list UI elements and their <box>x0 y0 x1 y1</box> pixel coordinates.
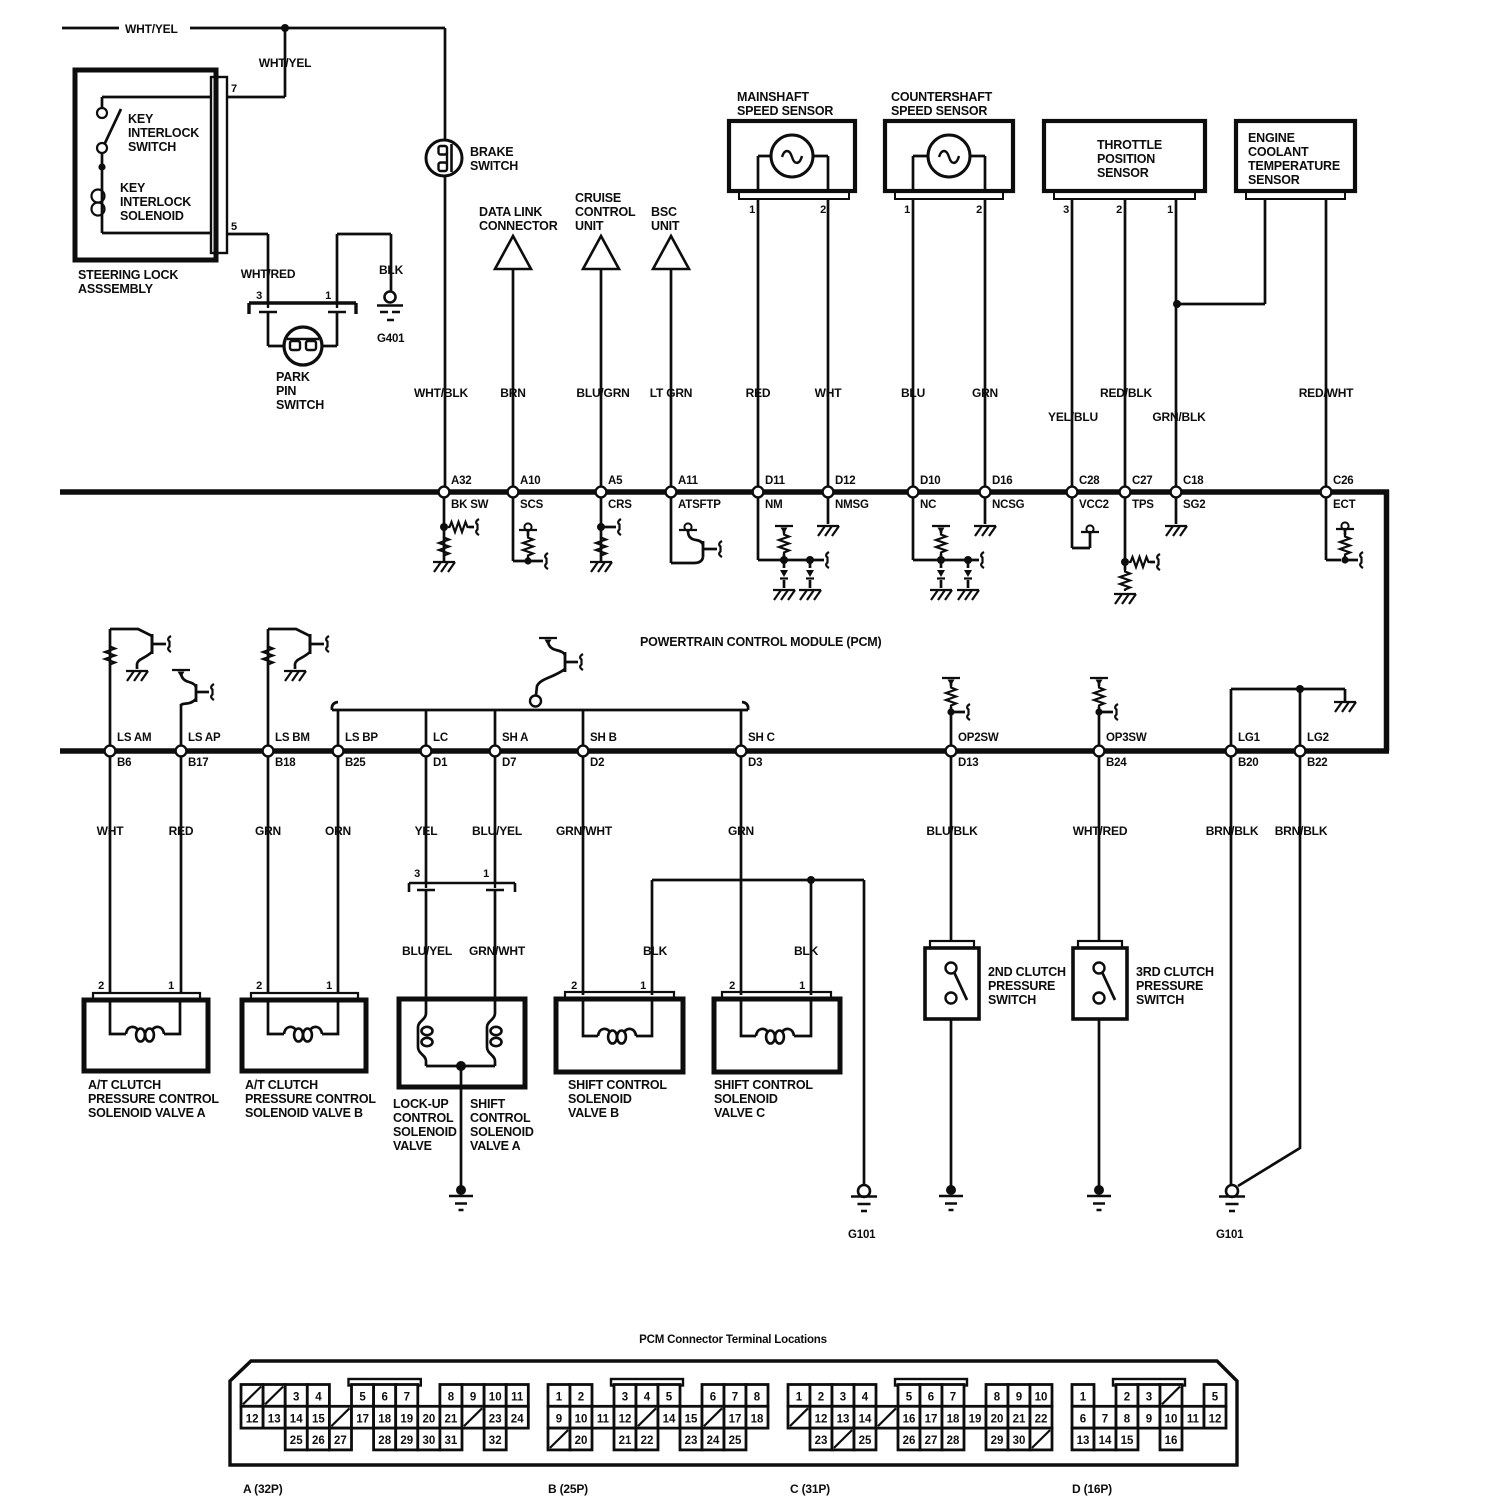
svg-text:B25: B25 <box>345 757 366 769</box>
svg-text:2: 2 <box>578 1392 584 1404</box>
svg-text:C (31P): C (31P) <box>790 1482 830 1496</box>
svg-text:SPEED SENSOR: SPEED SENSOR <box>891 104 987 118</box>
svg-text:15: 15 <box>1121 1435 1134 1447</box>
wire RED <box>746 199 771 489</box>
svg-text:28: 28 <box>378 1435 391 1447</box>
wire RED/BLK <box>1100 199 1152 489</box>
wire GRN/WHT to shift valve A <box>469 890 526 1000</box>
svg-text:7: 7 <box>231 83 237 95</box>
svg-text:A32: A32 <box>451 475 472 487</box>
svg-text:VALVE: VALVE <box>393 1139 432 1153</box>
wire YEL D1 <box>415 756 438 883</box>
node SH A D7 <box>490 732 529 769</box>
svg-text:G101: G101 <box>1216 1229 1244 1241</box>
node D11 NM <box>753 475 786 511</box>
svg-text:D1: D1 <box>433 757 448 769</box>
svg-text:WHT/RED: WHT/RED <box>241 267 296 281</box>
svg-text:7: 7 <box>950 1392 956 1404</box>
svg-text:PCM Connector Terminal Locatio: PCM Connector Terminal Locations <box>639 1334 827 1346</box>
ground G401 <box>377 292 405 346</box>
svg-text:1: 1 <box>904 204 910 216</box>
svg-text:D3: D3 <box>748 757 762 769</box>
svg-text:GRN/BLK: GRN/BLK <box>1152 410 1206 424</box>
svg-text:6: 6 <box>381 1392 387 1404</box>
svg-text:LS BP: LS BP <box>345 732 378 744</box>
NMSG internal ground <box>817 497 839 536</box>
svg-text:B20: B20 <box>1238 757 1259 769</box>
svg-text:SENSOR: SENSOR <box>1248 173 1300 187</box>
svg-text:PARK: PARK <box>276 370 310 384</box>
svg-text:18: 18 <box>947 1413 960 1425</box>
svg-text:C26: C26 <box>1333 475 1354 487</box>
svg-text:PRESSURE CONTROL: PRESSURE CONTROL <box>88 1092 219 1106</box>
svg-text:C27: C27 <box>1132 475 1153 487</box>
svg-text:KEY: KEY <box>128 112 154 126</box>
svg-text:14: 14 <box>663 1413 676 1425</box>
ground G101 left <box>848 1185 877 1241</box>
svg-text:21: 21 <box>1013 1413 1026 1425</box>
svg-text:BLU/GRN: BLU/GRN <box>576 386 629 400</box>
svg-text:SHIFT: SHIFT <box>470 1097 506 1111</box>
wire BRN/BLK B20 <box>1206 756 1259 1185</box>
node OP2SW D13 <box>946 732 999 769</box>
svg-text:SHIFT CONTROL: SHIFT CONTROL <box>568 1078 667 1092</box>
svg-text:LC: LC <box>433 732 448 744</box>
svg-text:D10: D10 <box>920 475 941 487</box>
wire WHT/RED pin5 to park pin switch <box>227 234 296 303</box>
svg-text:CONTROL: CONTROL <box>575 205 636 219</box>
svg-text:SOLENOID: SOLENOID <box>120 209 184 223</box>
svg-text:SH C: SH C <box>748 732 775 744</box>
svg-text:BK SW: BK SW <box>451 499 489 511</box>
wire RED/WHT <box>1299 199 1354 489</box>
svg-text:ORN: ORN <box>325 824 351 838</box>
wire RED B17 <box>169 756 194 993</box>
svg-text:3: 3 <box>256 290 262 302</box>
svg-text:24: 24 <box>707 1435 720 1447</box>
label WHT/YEL vertical branch <box>259 56 312 70</box>
svg-text:RED/BLK: RED/BLK <box>1100 386 1152 400</box>
svg-text:POSITION: POSITION <box>1097 152 1155 166</box>
svg-text:GRN: GRN <box>255 824 281 838</box>
svg-text:BRN/BLK: BRN/BLK <box>1275 824 1328 838</box>
BSC unit <box>651 205 689 269</box>
svg-text:5: 5 <box>906 1392 913 1404</box>
svg-text:8: 8 <box>1124 1413 1131 1425</box>
wire BLU/BLK D13 <box>926 756 978 941</box>
svg-text:4: 4 <box>862 1392 869 1404</box>
svg-text:30: 30 <box>423 1435 436 1447</box>
svg-text:13: 13 <box>1077 1435 1090 1447</box>
wire 3rd clutch switch to ground <box>1098 1019 1101 1186</box>
cruise control unit <box>575 191 636 269</box>
svg-text:LS AP: LS AP <box>188 732 221 744</box>
wire WHT/RED B24 <box>1073 756 1128 941</box>
NC internal clamp network <box>913 497 984 600</box>
wire BLU/YEL D7 <box>472 756 522 883</box>
wire BRN <box>500 269 525 489</box>
svg-text:SOLENOID VALVE A: SOLENOID VALVE A <box>88 1106 206 1120</box>
svg-text:29: 29 <box>400 1435 413 1447</box>
TPS internal divider <box>1114 497 1160 604</box>
LS AP internal driver transistor <box>172 670 214 746</box>
svg-text:6: 6 <box>928 1392 934 1404</box>
3rd clutch pressure switch connector <box>1078 941 1122 948</box>
svg-text:29: 29 <box>991 1435 1004 1447</box>
svg-text:8: 8 <box>448 1392 455 1404</box>
svg-text:24: 24 <box>511 1413 524 1425</box>
svg-text:COUNTERSHAFT: COUNTERSHAFT <box>891 90 993 104</box>
svg-text:1: 1 <box>796 1392 803 1404</box>
svg-text:2: 2 <box>1124 1392 1130 1404</box>
label PCM connector terminal locations <box>639 1334 827 1346</box>
mainshaft speed sensor <box>729 90 855 216</box>
svg-text:COOLANT: COOLANT <box>1248 145 1309 159</box>
svg-text:SPEED SENSOR: SPEED SENSOR <box>737 104 833 118</box>
svg-text:RED/WHT: RED/WHT <box>1299 386 1354 400</box>
svg-text:8: 8 <box>754 1392 761 1404</box>
svg-text:GRN: GRN <box>728 824 754 838</box>
svg-text:B6: B6 <box>117 757 131 769</box>
3rd clutch pressure switch <box>1073 948 1214 1019</box>
lock-up solenoid connector <box>409 868 515 892</box>
2nd clutch pressure switch <box>925 948 1066 1019</box>
svg-text:B24: B24 <box>1106 757 1127 769</box>
svg-text:TEMPERATURE: TEMPERATURE <box>1248 159 1340 173</box>
svg-text:16: 16 <box>1165 1435 1178 1447</box>
svg-text:SH B: SH B <box>590 732 617 744</box>
label connector D <box>1072 1482 1112 1496</box>
ground below 3rd clutch switch <box>1087 1185 1111 1210</box>
svg-text:SOLENOID: SOLENOID <box>393 1125 457 1139</box>
OP2SW internal pull-up <box>942 678 970 746</box>
node C28 VCC2 <box>1067 475 1109 511</box>
svg-text:LS BM: LS BM <box>275 732 310 744</box>
A/T clutch pressure control solenoid valve A connector <box>93 980 200 1000</box>
wire ORN B25 <box>325 756 351 993</box>
wire WHT/BLK brake switch to A32 <box>414 176 468 489</box>
svg-text:TPS: TPS <box>1132 499 1154 511</box>
svg-text:SCS: SCS <box>520 499 544 511</box>
ground G101 right <box>1216 1185 1245 1241</box>
svg-text:12: 12 <box>1209 1413 1222 1425</box>
svg-text:NCSG: NCSG <box>992 499 1025 511</box>
svg-text:OP2SW: OP2SW <box>958 732 999 744</box>
svg-text:15: 15 <box>312 1413 325 1425</box>
node OP3SW B24 <box>1094 732 1147 769</box>
svg-text:POWERTRAIN CONTROL MODULE (PCM: POWERTRAIN CONTROL MODULE (PCM) <box>640 635 882 649</box>
wire BLU <box>901 199 925 489</box>
node LC D1 <box>421 732 449 769</box>
svg-text:GRN: GRN <box>972 386 998 400</box>
svg-text:22: 22 <box>641 1435 654 1447</box>
svg-text:YEL: YEL <box>415 824 438 838</box>
svg-text:4: 4 <box>644 1392 651 1404</box>
wire lock-up valve to ground <box>460 1066 463 1186</box>
data link connector <box>479 205 558 269</box>
svg-text:14: 14 <box>1099 1435 1112 1447</box>
svg-text:1: 1 <box>749 204 755 216</box>
svg-text:BRN/BLK: BRN/BLK <box>1206 824 1259 838</box>
SCS internal pull-up <box>513 497 548 569</box>
wire BLU/GRN <box>576 269 629 489</box>
svg-text:7: 7 <box>404 1392 410 1404</box>
PCM bus sensor side <box>60 489 1389 495</box>
park pin switch <box>268 312 337 412</box>
svg-text:ENGINE: ENGINE <box>1248 131 1295 145</box>
connector B (25P) <box>548 1379 768 1450</box>
node A11 ATSFTP <box>666 475 722 511</box>
svg-text:PRESSURE CONTROL: PRESSURE CONTROL <box>245 1092 376 1106</box>
wire BLU/YEL to lock-up valve <box>402 890 452 1000</box>
VCC2 internal supply <box>1072 497 1099 548</box>
svg-text:SENSOR: SENSOR <box>1097 166 1149 180</box>
wire BLK shift valve C <box>794 876 819 995</box>
svg-text:14: 14 <box>859 1413 872 1425</box>
svg-text:3: 3 <box>622 1392 628 1404</box>
node D10 NC <box>908 475 941 511</box>
svg-text:GRN/WHT: GRN/WHT <box>469 944 526 958</box>
park pin switch connector <box>249 290 356 314</box>
wire BLK to G401 <box>337 234 404 303</box>
label powertrain control module <box>640 635 882 649</box>
svg-text:UNIT: UNIT <box>651 219 680 233</box>
svg-text:WHT/RED: WHT/RED <box>1073 824 1128 838</box>
svg-text:SOLENOID: SOLENOID <box>714 1092 778 1106</box>
svg-text:WHT/BLK: WHT/BLK <box>414 386 468 400</box>
node LS AM B6 <box>105 732 152 769</box>
BK SW internal resistor network <box>433 497 479 572</box>
node LG2 B22 <box>1295 732 1329 769</box>
svg-text:5: 5 <box>666 1392 673 1404</box>
svg-text:25: 25 <box>859 1435 872 1447</box>
svg-text:3: 3 <box>293 1392 299 1404</box>
svg-text:BRAKE: BRAKE <box>470 145 513 159</box>
svg-text:BLU/YEL: BLU/YEL <box>402 944 452 958</box>
svg-text:DATA LINK: DATA LINK <box>479 205 542 219</box>
svg-text:SHIFT CONTROL: SHIFT CONTROL <box>714 1078 813 1092</box>
svg-text:18: 18 <box>378 1413 391 1425</box>
wire ECT signal to SG2 node <box>1173 199 1265 308</box>
svg-text:23: 23 <box>489 1413 502 1425</box>
svg-text:GRN/WHT: GRN/WHT <box>556 824 613 838</box>
engine coolant temperature sensor <box>1236 121 1355 199</box>
svg-text:2: 2 <box>820 204 826 216</box>
wire LT GRN <box>650 269 693 489</box>
PCM bus actuator side <box>60 748 1389 754</box>
svg-text:2: 2 <box>256 980 262 992</box>
LS BM internal driver transistor <box>263 629 329 746</box>
node A10 SCS <box>508 475 544 511</box>
svg-text:ECT: ECT <box>1333 499 1356 511</box>
node C26 ECT <box>1321 475 1356 511</box>
wire YEL/BLU <box>1048 199 1098 489</box>
svg-text:VCC2: VCC2 <box>1079 499 1109 511</box>
svg-text:WHT: WHT <box>815 386 843 400</box>
svg-text:D12: D12 <box>835 475 856 487</box>
brake switch <box>426 140 518 176</box>
wire BLK to G101 <box>863 880 866 1186</box>
svg-text:4: 4 <box>315 1392 322 1404</box>
svg-text:SOLENOID: SOLENOID <box>470 1125 534 1139</box>
svg-text:A/T CLUTCH: A/T CLUTCH <box>245 1078 318 1092</box>
svg-text:VALVE C: VALVE C <box>714 1106 765 1120</box>
key interlock solenoid <box>92 153 212 233</box>
svg-text:5: 5 <box>231 221 237 233</box>
svg-text:3: 3 <box>414 868 420 880</box>
svg-text:27: 27 <box>334 1435 347 1447</box>
svg-text:STEERING LOCK: STEERING LOCK <box>78 268 178 282</box>
svg-text:SH A: SH A <box>502 732 528 744</box>
ATSFTP internal transistor <box>671 497 722 563</box>
svg-text:21: 21 <box>619 1435 632 1447</box>
svg-text:PRESSURE: PRESSURE <box>1136 979 1203 993</box>
svg-text:VALVE B: VALVE B <box>568 1106 619 1120</box>
svg-text:26: 26 <box>312 1435 325 1447</box>
svg-text:17: 17 <box>729 1413 742 1425</box>
svg-text:1: 1 <box>640 980 646 992</box>
connector A (32P) <box>241 1379 528 1450</box>
CRS internal resistor <box>590 497 621 572</box>
svg-text:NMSG: NMSG <box>835 499 869 511</box>
svg-text:6: 6 <box>710 1392 716 1404</box>
svg-text:23: 23 <box>685 1435 698 1447</box>
node C18 SG2 <box>1171 475 1206 511</box>
svg-text:2: 2 <box>729 980 735 992</box>
LS AM internal driver transistor <box>105 629 171 746</box>
svg-text:B22: B22 <box>1307 757 1328 769</box>
svg-text:CONTROL: CONTROL <box>393 1111 454 1125</box>
node SH B D2 <box>578 732 617 769</box>
svg-text:CRS: CRS <box>608 499 632 511</box>
svg-text:BLK: BLK <box>643 944 668 958</box>
shift control solenoid valve B connector <box>565 980 674 999</box>
node A32 BK SW <box>439 475 489 511</box>
PCM connector panel outline <box>230 1361 1237 1465</box>
svg-text:1: 1 <box>168 980 174 992</box>
NCSG internal ground <box>974 497 996 536</box>
svg-text:BRN: BRN <box>500 386 525 400</box>
A/T clutch pressure control solenoid valve A <box>84 999 219 1120</box>
svg-text:VALVE A: VALVE A <box>470 1139 521 1153</box>
svg-text:2: 2 <box>1116 204 1122 216</box>
svg-text:C18: C18 <box>1183 475 1204 487</box>
shift solenoid common driver transistor <box>530 638 583 707</box>
svg-text:WHT/YEL: WHT/YEL <box>125 22 178 36</box>
ECT internal pull-up <box>1326 497 1363 568</box>
wire GRN B18 <box>255 756 281 993</box>
svg-text:SWITCH: SWITCH <box>276 398 324 412</box>
node D16 NCSG <box>980 475 1025 511</box>
svg-text:LG1: LG1 <box>1238 732 1261 744</box>
svg-text:BLU/BLK: BLU/BLK <box>926 824 978 838</box>
svg-text:NC: NC <box>920 499 936 511</box>
svg-text:YEL/BLU: YEL/BLU <box>1048 410 1098 424</box>
svg-text:D13: D13 <box>958 757 979 769</box>
svg-text:SWITCH: SWITCH <box>988 993 1036 1007</box>
node A5 CRS <box>596 475 633 511</box>
svg-text:ATSFTP: ATSFTP <box>678 499 721 511</box>
label connector A <box>243 1482 283 1496</box>
label connector B <box>548 1482 588 1496</box>
connector D (16P) <box>1072 1379 1226 1450</box>
svg-text:14: 14 <box>290 1413 303 1425</box>
shift driver rail <box>332 702 748 746</box>
svg-text:A10: A10 <box>520 475 541 487</box>
svg-text:20: 20 <box>575 1435 588 1447</box>
svg-text:13: 13 <box>837 1413 850 1425</box>
svg-text:10: 10 <box>575 1413 588 1425</box>
svg-text:12: 12 <box>246 1413 259 1425</box>
svg-text:28: 28 <box>947 1435 960 1447</box>
svg-text:PRESSURE: PRESSURE <box>988 979 1055 993</box>
svg-text:PIN: PIN <box>276 384 296 398</box>
svg-text:RED: RED <box>169 824 194 838</box>
svg-text:23: 23 <box>815 1435 828 1447</box>
pin 7 <box>231 83 237 95</box>
svg-text:19: 19 <box>400 1413 413 1425</box>
svg-text:RED: RED <box>746 386 771 400</box>
svg-text:D11: D11 <box>765 475 786 487</box>
wire GRN D3 <box>728 756 754 995</box>
label connector C <box>790 1482 830 1496</box>
svg-text:CRUISE: CRUISE <box>575 191 621 205</box>
svg-text:1: 1 <box>326 980 332 992</box>
wire BRN/BLK B22 <box>1238 756 1328 1186</box>
svg-text:27: 27 <box>925 1435 938 1447</box>
svg-text:A (32P): A (32P) <box>243 1482 283 1496</box>
wire GRN/BLK <box>1152 199 1206 489</box>
svg-text:1: 1 <box>556 1392 563 1404</box>
svg-text:CONNECTOR: CONNECTOR <box>479 219 558 233</box>
ground below lock-up valve <box>449 1185 473 1210</box>
svg-text:SOLENOID VALVE B: SOLENOID VALVE B <box>245 1106 363 1120</box>
svg-text:THROTTLE: THROTTLE <box>1097 138 1162 152</box>
svg-text:D7: D7 <box>502 757 516 769</box>
node LS BP B25 <box>333 732 379 769</box>
svg-text:2: 2 <box>98 980 104 992</box>
steering lock assembly box <box>75 70 227 296</box>
svg-text:BLU/YEL: BLU/YEL <box>472 824 522 838</box>
svg-text:11: 11 <box>597 1413 610 1425</box>
svg-text:2: 2 <box>818 1392 824 1404</box>
wire BLK shift valve B <box>643 880 864 995</box>
node C27 TPS <box>1120 475 1155 511</box>
svg-text:MAINSHAFT: MAINSHAFT <box>737 90 809 104</box>
svg-text:KEY: KEY <box>120 181 146 195</box>
svg-text:SWITCH: SWITCH <box>128 140 176 154</box>
svg-text:ASSSEMBLY: ASSSEMBLY <box>78 282 154 296</box>
svg-text:9: 9 <box>1016 1392 1022 1404</box>
svg-text:D2: D2 <box>590 757 604 769</box>
svg-text:LS AM: LS AM <box>117 732 151 744</box>
wire WHT <box>815 199 843 489</box>
svg-text:32: 32 <box>489 1435 502 1447</box>
svg-text:C28: C28 <box>1079 475 1100 487</box>
svg-text:G101: G101 <box>848 1229 876 1241</box>
svg-text:SOLENOID: SOLENOID <box>568 1092 632 1106</box>
shift control solenoid valve C <box>714 998 840 1120</box>
node SH C D3 <box>736 732 775 769</box>
svg-text:BSC: BSC <box>651 205 677 219</box>
svg-text:SWITCH: SWITCH <box>1136 993 1184 1007</box>
svg-text:BLK: BLK <box>794 944 819 958</box>
svg-text:1: 1 <box>483 868 489 880</box>
svg-text:LG2: LG2 <box>1307 732 1329 744</box>
svg-text:OP3SW: OP3SW <box>1106 732 1147 744</box>
svg-text:D16: D16 <box>992 475 1013 487</box>
svg-text:1: 1 <box>1080 1392 1087 1404</box>
